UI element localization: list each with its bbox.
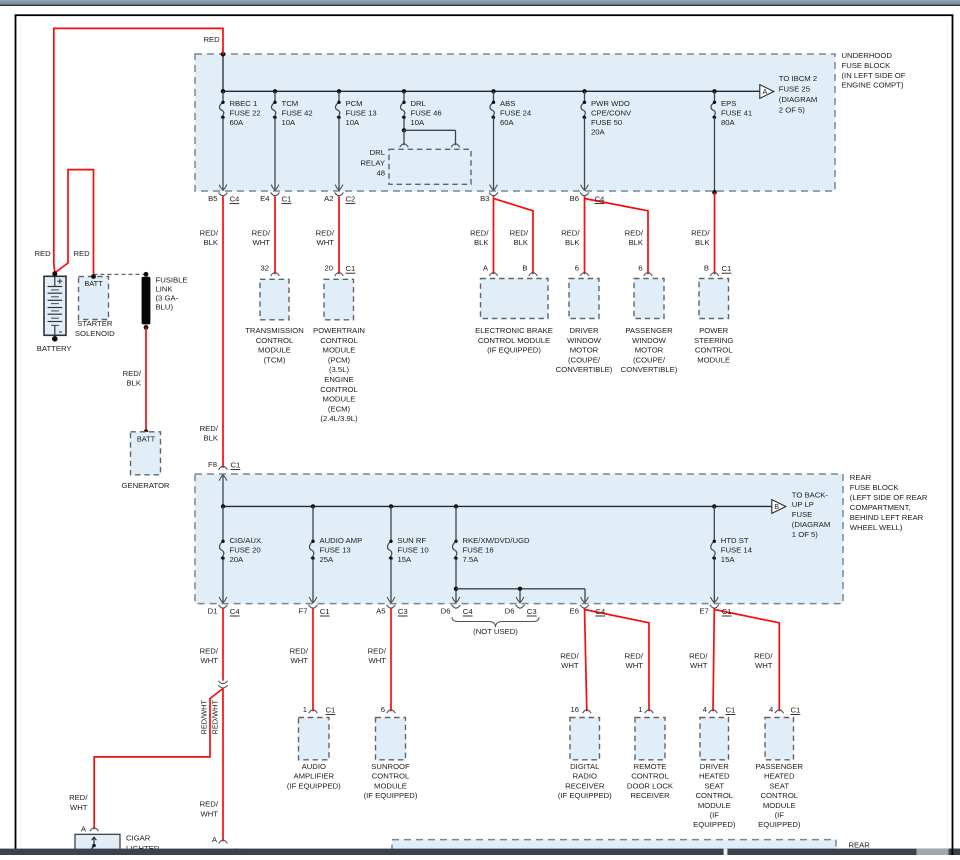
svg-text:(IF EQUIPPED): (IF EQUIPPED) xyxy=(558,791,612,800)
svg-text:BLK: BLK xyxy=(203,238,218,247)
svg-text:FUSE 24: FUSE 24 xyxy=(500,109,532,118)
fuse PWR WDO FUSE 50 xyxy=(582,89,586,93)
svg-text:RADIO: RADIO xyxy=(573,772,597,781)
svg-text:D6: D6 xyxy=(505,606,515,615)
svg-text:STEERING: STEERING xyxy=(694,336,733,345)
svg-text:AMPLIFIER: AMPLIFIER xyxy=(294,772,335,781)
wire F7 drop xyxy=(312,558,314,603)
svg-text:B3: B3 xyxy=(480,194,489,203)
svg-text:WHT: WHT xyxy=(252,238,270,247)
svg-text:TO IBCM 2: TO IBCM 2 xyxy=(779,74,817,83)
svg-text:RKE/XM/DVD/UGD: RKE/XM/DVD/UGD xyxy=(463,536,531,545)
svg-text:FUSE 14: FUSE 14 xyxy=(721,546,753,555)
fuse ABS FUSE 24 xyxy=(491,89,495,93)
svg-text:RED/: RED/ xyxy=(689,651,708,660)
fuse RBEC 1 FUSE 22 xyxy=(221,89,225,93)
svg-text:20A: 20A xyxy=(591,128,606,137)
wire D1 drop xyxy=(222,558,224,603)
wire RED/WHT E6 to digital radio receiver pin 16 xyxy=(585,609,587,712)
svg-text:COMPARTMENT,: COMPARTMENT, xyxy=(850,503,911,512)
fuse AUDIO AMP xyxy=(311,504,315,508)
svg-text:WHT: WHT xyxy=(200,656,218,665)
svg-text:4: 4 xyxy=(703,705,708,714)
svg-text:BATT: BATT xyxy=(137,435,156,444)
svg-text:A5: A5 xyxy=(376,606,385,615)
svg-text:RECEIVER: RECEIVER xyxy=(630,791,670,800)
connector exit B5 C4 xyxy=(219,185,227,191)
svg-text:C1: C1 xyxy=(326,706,336,715)
svg-text:RED/: RED/ xyxy=(368,646,387,655)
svg-text:RED/: RED/ xyxy=(625,651,644,660)
sunroof control module xyxy=(376,718,406,760)
svg-text:C4: C4 xyxy=(595,607,606,616)
fuse SUN RF xyxy=(389,504,393,508)
connector exit F7 C1 xyxy=(309,597,317,603)
svg-text:POWERTRAIN: POWERTRAIN xyxy=(313,326,365,335)
svg-text:RED: RED xyxy=(204,35,221,44)
svg-text:REMOTE: REMOTE xyxy=(634,762,667,771)
svg-text:A: A xyxy=(483,264,489,273)
svg-text:FUSE BLOCK: FUSE BLOCK xyxy=(850,483,900,492)
svg-text:RED/: RED/ xyxy=(200,800,219,809)
remote control door lock receiver xyxy=(635,718,665,760)
node EPS exit xyxy=(712,190,717,195)
fuse RKE/XM/DVD/UGD xyxy=(454,504,458,508)
connector F8 C1 entry xyxy=(219,466,228,469)
svg-text:RECEIVER: RECEIVER xyxy=(565,781,605,790)
svg-text:(NOT USED): (NOT USED) xyxy=(473,627,518,636)
wire A2 drop xyxy=(338,117,340,190)
svg-text:DRIVER: DRIVER xyxy=(700,762,729,771)
svg-text:10A: 10A xyxy=(346,118,361,127)
svg-text:RED: RED xyxy=(74,249,91,258)
svg-text:(IF: (IF xyxy=(710,811,720,820)
svg-text:32: 32 xyxy=(260,264,269,273)
svg-text:2 OF 5): 2 OF 5) xyxy=(779,105,805,114)
svg-text:DRIVER: DRIVER xyxy=(569,326,598,335)
svg-text:ENGINE: ENGINE xyxy=(324,375,353,384)
svg-text:4: 4 xyxy=(769,705,774,714)
svg-text:A: A xyxy=(81,824,87,833)
wire RKE split xyxy=(455,558,457,603)
svg-text:10A: 10A xyxy=(411,118,426,127)
svg-text:CONTROL: CONTROL xyxy=(320,385,358,394)
svg-text:(3.5L): (3.5L) xyxy=(329,365,350,374)
fusible link (3 GA-BLU) xyxy=(144,272,149,277)
svg-text:6: 6 xyxy=(381,705,385,714)
svg-text:MOTOR: MOTOR xyxy=(635,346,664,355)
svg-text:FUSE 46: FUSE 46 xyxy=(411,109,442,118)
wire RED/BLK B6 to driver window motor xyxy=(584,196,586,274)
wire RED battery to underhood block xyxy=(54,28,223,272)
svg-text:RELAY: RELAY xyxy=(360,158,385,167)
svg-text:ABS: ABS xyxy=(500,99,515,108)
svg-text:STARTER: STARTER xyxy=(77,319,113,328)
svg-text:AUDIO AMP: AUDIO AMP xyxy=(320,536,363,545)
bus wire rear block xyxy=(223,505,772,507)
svg-text:WHT: WHT xyxy=(690,661,708,670)
svg-text:EQUIPPED): EQUIPPED) xyxy=(758,820,801,829)
svg-text:RED/: RED/ xyxy=(316,228,335,237)
svg-text:WHT: WHT xyxy=(561,661,579,670)
wire RED/WHT E7 branch to passenger heated seat pin 4 xyxy=(714,610,779,712)
wire RED/BLK B5 to F8 xyxy=(222,196,224,468)
svg-text:WINDOW: WINDOW xyxy=(567,336,601,345)
svg-text:SOLENOID: SOLENOID xyxy=(75,329,115,338)
off-page arrow B TO BACK-UP LP FUSE xyxy=(772,500,786,514)
underhood fuse block xyxy=(195,54,835,191)
svg-text:(PCM): (PCM) xyxy=(328,355,351,364)
svg-text:RED/: RED/ xyxy=(252,228,271,237)
wire RED/BLK B3 branch to EBCM pin B xyxy=(494,199,534,275)
pin 6 connector cap passenger window motor xyxy=(644,273,653,276)
svg-text:BLK: BLK xyxy=(203,434,218,443)
svg-text:SUN RF: SUN RF xyxy=(398,536,427,545)
battery xyxy=(44,276,66,335)
rear fuse block xyxy=(195,474,843,604)
DRL relay 48 xyxy=(389,149,471,184)
svg-text:C4: C4 xyxy=(230,195,241,204)
svg-text:AUDIO: AUDIO xyxy=(302,762,326,771)
svg-text:(IF EQUIPPED): (IF EQUIPPED) xyxy=(287,781,341,790)
svg-text:RED/WHT: RED/WHT xyxy=(200,700,209,735)
svg-text:C1: C1 xyxy=(722,264,732,273)
svg-text:FUSE 50: FUSE 50 xyxy=(591,118,622,127)
inline connector on D1 wire xyxy=(218,681,227,684)
svg-text:A: A xyxy=(212,835,218,844)
svg-text:(COUPE/: (COUPE/ xyxy=(568,355,601,364)
connector exit E6 xyxy=(581,597,589,603)
svg-text:C4: C4 xyxy=(595,195,606,204)
svg-text:MOTOR: MOTOR xyxy=(570,346,599,355)
connector exit D1 C4 xyxy=(219,597,227,603)
wire RED/BLK fusible link to generator xyxy=(145,327,147,431)
svg-text:CONVERTIBLE): CONVERTIBLE) xyxy=(556,365,613,374)
connector exit A2 C2 xyxy=(335,185,343,191)
svg-text:MODULE: MODULE xyxy=(698,801,731,810)
svg-text:C2: C2 xyxy=(346,195,356,204)
svg-text:BLK: BLK xyxy=(474,238,489,247)
svg-text:FUSE 20: FUSE 20 xyxy=(230,546,261,555)
wire RED/WHT E6 branch to remote door lock receiver pin 1 xyxy=(585,610,650,712)
svg-text:UP LP: UP LP xyxy=(792,500,814,509)
fuse PCM FUSE 13 xyxy=(337,89,341,93)
svg-text:CIG/AUX: CIG/AUX xyxy=(230,536,262,545)
svg-text:BATTERY: BATTERY xyxy=(37,344,72,353)
svg-text:B: B xyxy=(704,264,709,273)
svg-text:MODULE: MODULE xyxy=(323,346,356,355)
svg-text:RED/: RED/ xyxy=(290,646,309,655)
node battery feed entry xyxy=(222,54,224,91)
svg-text:E6: E6 xyxy=(570,606,579,615)
wire B3 drop xyxy=(493,117,495,190)
svg-text:(2.4L/3.9L): (2.4L/3.9L) xyxy=(320,414,358,423)
svg-text:RED/: RED/ xyxy=(691,228,710,237)
svg-text:RED/: RED/ xyxy=(560,651,579,660)
pin B C1 connector cap power steering xyxy=(710,273,719,276)
wire branch to cigar lighter xyxy=(94,689,223,830)
svg-text:ENGINE COMPT): ENGINE COMPT) xyxy=(842,81,904,90)
passenger heated seat control module xyxy=(765,718,794,760)
wire RED battery to starter solenoid xyxy=(55,170,94,275)
svg-text:POWER: POWER xyxy=(699,326,728,335)
driver heated seat control module xyxy=(700,718,729,760)
svg-text:CONTROL: CONTROL xyxy=(695,346,733,355)
svg-text:D1: D1 xyxy=(208,606,218,615)
svg-text:CONTROL: CONTROL xyxy=(761,791,799,800)
svg-text:WHT: WHT xyxy=(70,803,88,812)
generator xyxy=(144,429,149,434)
svg-text:GENERATOR: GENERATOR xyxy=(122,481,170,490)
svg-text:B6: B6 xyxy=(570,194,579,203)
svg-text:FUSE 13: FUSE 13 xyxy=(346,109,377,118)
fuse TCM FUSE 42 xyxy=(273,89,277,93)
connector exit D6 C3 xyxy=(516,597,524,603)
svg-text:DIGITAL: DIGITAL xyxy=(570,762,600,771)
svg-text:A2: A2 xyxy=(324,194,333,203)
wire RED/WHT E7 to driver heated seat pin 4 xyxy=(713,609,714,712)
svg-text:BLU): BLU) xyxy=(156,302,174,311)
power steering control module xyxy=(699,279,729,319)
svg-text:15A: 15A xyxy=(398,555,413,564)
svg-text:BLK: BLK xyxy=(565,238,580,247)
svg-text:EPS: EPS xyxy=(721,99,736,108)
svg-text:E4: E4 xyxy=(260,194,270,203)
svg-text:BLK: BLK xyxy=(513,238,528,247)
svg-text:MODULE: MODULE xyxy=(258,346,291,355)
wire EPS drop xyxy=(714,117,716,191)
svg-text:60A: 60A xyxy=(230,118,245,127)
svg-text:FUSE 22: FUSE 22 xyxy=(230,109,261,118)
svg-text:RED/: RED/ xyxy=(470,228,489,237)
wire RED/BLK B6 branch to passenger window motor xyxy=(585,199,649,275)
svg-text:B: B xyxy=(522,264,527,273)
entry arrow into rear block xyxy=(219,475,227,481)
digital radio receiver xyxy=(570,718,600,760)
pin 6 connector cap driver window motor xyxy=(580,273,589,276)
svg-text:HTD ST: HTD ST xyxy=(721,536,749,545)
fuse DRL FUSE 46 xyxy=(402,89,406,93)
svg-text:(LEFT SIDE OF REAR: (LEFT SIDE OF REAR xyxy=(850,493,928,502)
svg-text:DRL: DRL xyxy=(411,99,427,108)
pin A auxiliary xyxy=(219,840,228,843)
wire RED/WHT A2 to PCM pin 20 xyxy=(338,196,340,274)
svg-text:WHT: WHT xyxy=(290,656,308,665)
bus wire underhood xyxy=(223,90,761,92)
svg-text:CONTROL: CONTROL xyxy=(256,336,294,345)
pins A and B connector caps xyxy=(489,273,498,276)
svg-text:SEAT: SEAT xyxy=(770,781,790,790)
fuse EPS FUSE 41 xyxy=(712,89,716,93)
svg-text:10A: 10A xyxy=(282,118,297,127)
connector exit E7 xyxy=(710,597,718,603)
powertrain control module (PCM/ECM) xyxy=(324,279,354,320)
svg-text:25A: 25A xyxy=(320,555,335,564)
svg-text:(ECM): (ECM) xyxy=(328,404,351,413)
connector exit A5 C3 xyxy=(387,597,395,603)
bottom rear block (cut off) xyxy=(392,840,836,858)
svg-text:FUSE 41: FUSE 41 xyxy=(721,109,752,118)
wire solenoid to fusible link (dashed) xyxy=(94,273,147,275)
svg-text:REAR: REAR xyxy=(849,840,871,849)
svg-text:WHEEL WELL): WHEEL WELL) xyxy=(850,523,903,532)
svg-text:20A: 20A xyxy=(230,555,245,564)
svg-text:PCM: PCM xyxy=(346,99,363,108)
svg-text:A: A xyxy=(763,87,768,96)
wire RED/WHT A5 to sunroof control module pin 6 xyxy=(390,609,392,712)
pin A cigar lighter xyxy=(90,828,99,831)
transmission control module (TCM) xyxy=(260,279,289,320)
svg-text:(DIAGRAM: (DIAGRAM xyxy=(792,520,830,529)
passenger window motor xyxy=(634,279,664,319)
fuse CIG/AUX xyxy=(221,504,225,508)
svg-text:TCM: TCM xyxy=(282,99,299,108)
svg-text:SUNROOF: SUNROOF xyxy=(371,762,410,771)
svg-text:REAR: REAR xyxy=(850,473,872,482)
svg-text:CIGAR: CIGAR xyxy=(126,833,151,842)
svg-text:CONTROL: CONTROL xyxy=(631,772,669,781)
connector exit E4 C1 xyxy=(271,185,279,191)
connector exit D6 C4 xyxy=(452,597,460,603)
wire RED/BLK EPS to power steering module xyxy=(714,192,716,274)
svg-text:D6: D6 xyxy=(441,606,451,615)
svg-text:RED/WHT: RED/WHT xyxy=(211,700,220,735)
driver window motor xyxy=(569,279,599,319)
svg-text:CONTROL: CONTROL xyxy=(372,772,410,781)
svg-text:RED/: RED/ xyxy=(561,228,580,237)
svg-text:SEAT: SEAT xyxy=(705,781,725,790)
svg-text:(DIAGRAM: (DIAGRAM xyxy=(779,95,817,104)
svg-text:RED/: RED/ xyxy=(123,369,142,378)
wire B5 drop xyxy=(222,117,224,190)
svg-text:(3 GA-: (3 GA- xyxy=(156,293,179,302)
svg-text:PASSENGER: PASSENGER xyxy=(625,326,673,335)
svg-text:FUSE 42: FUSE 42 xyxy=(282,109,313,118)
svg-text:CONTROL: CONTROL xyxy=(696,791,734,800)
svg-text:6: 6 xyxy=(638,264,642,273)
svg-text:BLK: BLK xyxy=(126,379,141,388)
svg-text:LINK: LINK xyxy=(156,284,174,293)
svg-text:(IN LEFT SIDE OF: (IN LEFT SIDE OF xyxy=(842,71,906,80)
svg-text:C1: C1 xyxy=(282,195,292,204)
svg-text:1 OF 5): 1 OF 5) xyxy=(792,530,818,539)
svg-text:FUSE 25: FUSE 25 xyxy=(779,85,810,94)
svg-text:WHT: WHT xyxy=(200,809,218,818)
wire HTD ST drop xyxy=(713,558,715,603)
svg-text:DRL: DRL xyxy=(370,148,386,157)
svg-text:C1: C1 xyxy=(722,607,732,616)
svg-text:C1: C1 xyxy=(346,264,356,273)
fuse HTD ST xyxy=(712,504,716,508)
svg-text:PWR WDO: PWR WDO xyxy=(591,99,630,108)
wire DRL fuse to relay xyxy=(403,117,405,130)
svg-text:RED/: RED/ xyxy=(200,424,219,433)
svg-text:C1: C1 xyxy=(231,461,241,470)
bottom chrome bar xyxy=(0,849,960,855)
svg-text:RED/: RED/ xyxy=(510,228,529,237)
svg-text:CONTROL: CONTROL xyxy=(320,336,358,345)
svg-text:RED/: RED/ xyxy=(69,793,88,802)
svg-text:C4: C4 xyxy=(463,607,474,616)
electronic brake control module xyxy=(481,279,549,319)
svg-text:FUSIBLE: FUSIBLE xyxy=(156,275,188,284)
wire RED/WHT D1 auxiliary feed xyxy=(222,609,224,681)
svg-text:F7: F7 xyxy=(299,606,308,615)
svg-text:16: 16 xyxy=(570,705,579,714)
svg-text:(TCM): (TCM) xyxy=(264,355,286,364)
svg-text:ELECTRONIC BRAKE: ELECTRONIC BRAKE xyxy=(475,326,553,335)
svg-text:F8: F8 xyxy=(208,460,217,469)
svg-text:RED: RED xyxy=(35,249,52,258)
svg-text:TO BACK-: TO BACK- xyxy=(792,490,829,499)
svg-text:DOOR LOCK: DOOR LOCK xyxy=(627,781,674,790)
svg-text:RED/: RED/ xyxy=(200,646,219,655)
pin 32 connector cap xyxy=(271,273,280,276)
svg-text:HEATED: HEATED xyxy=(699,772,730,781)
svg-text:CONVERTIBLE): CONVERTIBLE) xyxy=(621,365,678,374)
svg-text:B: B xyxy=(774,502,779,511)
svg-text:MODULE: MODULE xyxy=(697,355,730,364)
svg-text:FUSE 13: FUSE 13 xyxy=(320,546,351,555)
svg-text:CPE/CONV: CPE/CONV xyxy=(591,109,632,118)
svg-text:FUSE 10: FUSE 10 xyxy=(398,546,429,555)
svg-text:MODULE: MODULE xyxy=(763,801,796,810)
svg-text:6: 6 xyxy=(575,264,579,273)
svg-text:EQUIPPED): EQUIPPED) xyxy=(693,820,736,829)
svg-text:RED/: RED/ xyxy=(625,228,644,237)
svg-text:C3: C3 xyxy=(527,607,537,616)
svg-text:BLK: BLK xyxy=(628,238,643,247)
relay pin connector caps xyxy=(400,144,409,147)
svg-text:FUSE 16: FUSE 16 xyxy=(463,546,494,555)
cigar lighter xyxy=(75,834,120,851)
svg-text:60A: 60A xyxy=(500,118,515,127)
wire RED/BLK B3 to EBCM pin A xyxy=(493,196,495,274)
svg-text:1: 1 xyxy=(638,705,642,714)
svg-text:PASSENGER: PASSENGER xyxy=(756,762,804,771)
svg-text:C1: C1 xyxy=(320,607,330,616)
svg-text:UNDERHOOD: UNDERHOOD xyxy=(842,51,893,60)
svg-text:HEATED: HEATED xyxy=(764,772,795,781)
wire RED/WHT F7 to audio amplifier pin 1 xyxy=(312,609,314,712)
audio amplifier xyxy=(299,718,330,760)
svg-text:1: 1 xyxy=(303,705,307,714)
svg-text:(COUPE/: (COUPE/ xyxy=(633,355,666,364)
page border right segment over bar xyxy=(951,849,953,855)
brace NOT USED xyxy=(452,617,539,627)
svg-text:C1: C1 xyxy=(791,706,801,715)
svg-text:15A: 15A xyxy=(721,555,736,564)
svg-text:C1: C1 xyxy=(726,706,736,715)
svg-text:WHT: WHT xyxy=(755,661,773,670)
svg-text:MODULE: MODULE xyxy=(323,395,356,404)
svg-text:E7: E7 xyxy=(699,606,708,615)
connector exit B6 C4 xyxy=(581,185,589,191)
svg-text:C4: C4 xyxy=(230,607,241,616)
off-page arrow A TO IBCM 2 xyxy=(760,85,774,99)
wire B6 drop xyxy=(584,117,586,190)
svg-text:BATT: BATT xyxy=(84,279,103,288)
svg-text:WHT: WHT xyxy=(316,238,334,247)
svg-text:RBEC 1: RBEC 1 xyxy=(230,99,258,108)
svg-text:MODULE: MODULE xyxy=(374,781,407,790)
svg-text:WHT: WHT xyxy=(368,656,386,665)
wire RED/WHT E4 to TCM pin 32 xyxy=(274,196,276,274)
svg-text:48: 48 xyxy=(376,169,385,178)
svg-text:RED/: RED/ xyxy=(200,228,219,237)
svg-text:B5: B5 xyxy=(208,194,217,203)
svg-text:(IF EQUIPPED): (IF EQUIPPED) xyxy=(487,346,541,355)
